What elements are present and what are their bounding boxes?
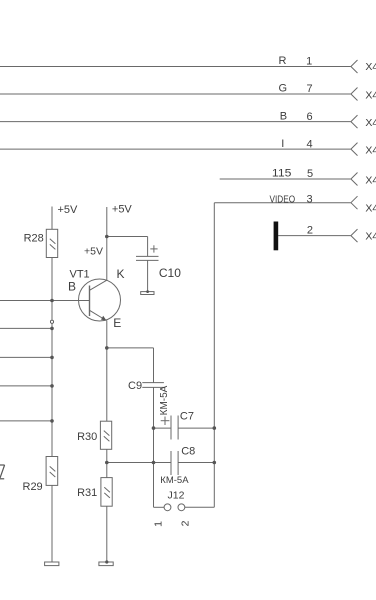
svg-text:E: E — [113, 316, 121, 330]
svg-text:G: G — [279, 83, 288, 95]
svg-text:2: 2 — [307, 225, 313, 237]
svg-text:C8: C8 — [181, 445, 195, 457]
svg-text:5: 5 — [307, 168, 313, 180]
svg-text:КМ-5А: КМ-5А — [160, 475, 189, 486]
svg-text:115: 115 — [272, 168, 292, 180]
svg-text:7: 7 — [306, 83, 312, 95]
svg-text:X4: X4 — [365, 203, 376, 215]
svg-text:C10: C10 — [159, 266, 181, 280]
svg-text:C7: C7 — [180, 410, 194, 422]
svg-text:X4: X4 — [365, 144, 376, 156]
svg-text:1: 1 — [306, 56, 312, 68]
svg-text:R30: R30 — [77, 431, 97, 443]
svg-text:R29: R29 — [23, 481, 43, 493]
svg-text:B: B — [68, 279, 76, 293]
svg-text:КМ-5А: КМ-5А — [159, 385, 170, 415]
svg-text:J12: J12 — [168, 490, 185, 502]
svg-text:X4: X4 — [365, 231, 376, 243]
svg-text:K: K — [117, 267, 125, 281]
svg-text:VIDEO: VIDEO — [270, 193, 296, 205]
svg-text:+5V: +5V — [84, 246, 103, 258]
svg-text:R28: R28 — [24, 232, 44, 244]
svg-text:C9: C9 — [128, 380, 142, 392]
svg-text:+5V: +5V — [58, 204, 79, 216]
svg-text:4: 4 — [306, 138, 312, 150]
svg-text:3: 3 — [306, 193, 312, 205]
svg-text:X4: X4 — [365, 117, 376, 129]
svg-text:R31: R31 — [77, 487, 97, 499]
svg-text:2: 2 — [180, 520, 192, 526]
svg-text:X4: X4 — [365, 175, 376, 187]
svg-text:X4: X4 — [365, 61, 376, 73]
svg-text:B: B — [280, 110, 287, 122]
svg-text:+5V: +5V — [112, 204, 133, 216]
svg-text:X4: X4 — [365, 89, 376, 101]
svg-text:R: R — [279, 55, 287, 67]
svg-text:I: I — [281, 138, 284, 150]
svg-text:1: 1 — [152, 521, 164, 527]
svg-text:6: 6 — [306, 111, 312, 123]
